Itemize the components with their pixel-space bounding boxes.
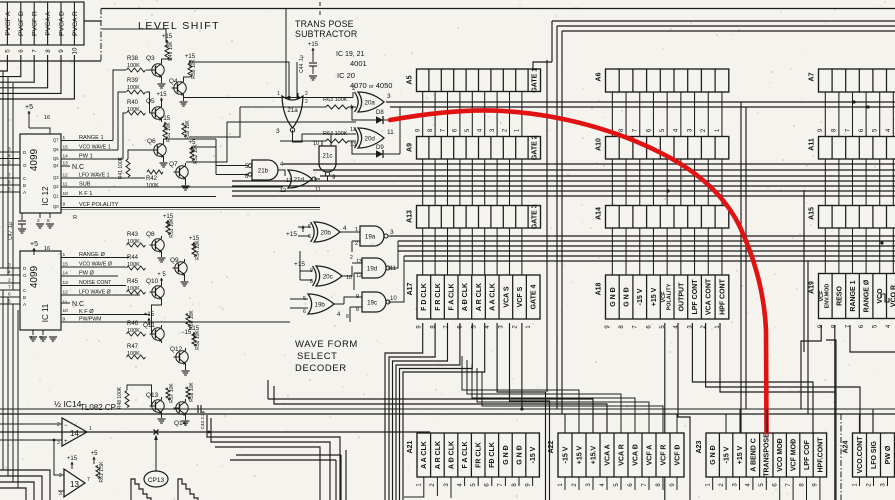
- wire stub above A23 +15V: [739, 409, 741, 433]
- gate 19d NAND: [362, 258, 386, 278]
- transistor Q3: [152, 64, 164, 76]
- wires IC11 output K.F 0: [61, 314, 150, 316]
- svg-text:12: 12: [350, 127, 356, 133]
- svg-text:2: 2: [350, 255, 353, 261]
- wire stub above A23 TRANSPOSE (under red): [766, 409, 768, 433]
- svg-text:R40: R40: [127, 100, 139, 106]
- svg-text:WAVE FORM: WAVE FORM: [295, 339, 358, 350]
- wire stub above A22 -15V: [564, 414, 566, 433]
- svg-text:PVCF R: PVCF R: [32, 11, 39, 36]
- resistor R46 100K: [127, 332, 146, 336]
- ground Q4 emitter: [183, 97, 185, 101]
- svg-text:G: G: [23, 273, 27, 278]
- wire 20a output to bus: [384, 101, 895, 103]
- svg-text:+ 5: + 5: [157, 272, 166, 278]
- connector A24: [843, 433, 895, 487]
- wire left edge bus 3: [12, 83, 14, 290]
- wire R63 wiring: [240, 106, 326, 108]
- resistor R48 100K vertical: [125, 391, 129, 408]
- junction dot: [880, 241, 883, 244]
- svg-text:SUB: SUB: [79, 182, 91, 188]
- wires IC12 output VCO WAVE 1: [61, 149, 118, 151]
- wire nest to A22 VCF R: [482, 372, 663, 433]
- wires A6 to A10 column: [612, 92, 722, 137]
- wires IC11 output RANGE 0: [61, 257, 129, 259]
- wire 21a pin2 tie: [297, 93, 299, 98]
- svg-text:16: 16: [44, 115, 50, 121]
- svg-text:R48 100K: R48 100K: [117, 386, 123, 409]
- svg-text:+5: +5: [189, 140, 197, 146]
- ground Q14: [185, 417, 187, 420]
- svg-text:IC 19, 21: IC 19, 21: [336, 51, 365, 58]
- svg-text:N.C: N.C: [72, 301, 84, 308]
- svg-text:PVCF A: PVCF A: [5, 11, 12, 36]
- wires IC12 output PW 1: [61, 158, 123, 160]
- wire vertical x=741: [740, 102, 742, 433]
- svg-text:Q6: Q6: [53, 147, 59, 152]
- wire OUTPUT down jog: [678, 323, 690, 500]
- wire bus y=170: [313, 169, 895, 171]
- svg-text:A10: A10: [596, 138, 603, 151]
- gate 20d XOR: [358, 128, 384, 148]
- connector A21: [407, 433, 539, 487]
- ground Q12: [185, 366, 187, 370]
- wires A13 to A17 column: [423, 228, 522, 275]
- wire vertical x=808: [807, 261, 809, 414]
- wire bus y=241: [398, 240, 895, 242]
- svg-text:4099: 4099: [29, 265, 40, 288]
- resistor R63 100K: [326, 105, 348, 109]
- wire vertical bus x=552: [551, 21, 553, 62]
- svg-text:A7: A7: [809, 72, 816, 81]
- svg-text:GATE 1: GATE 1: [532, 68, 539, 93]
- wires A23 pin stubs: [713, 477, 820, 500]
- wires A15 to A19 column: [825, 228, 893, 275]
- wire HPF CONT route: [720, 323, 836, 392]
- dash-dot page tick on top line: [319, 2, 321, 15]
- resistor R47 100K: [127, 355, 146, 359]
- wire bus y=176: [320, 175, 895, 177]
- wires IC11 output LFO WAVE 0: [61, 294, 140, 296]
- wire R64 left: [280, 140, 326, 142]
- svg-text:POLALITY: POLALITY: [667, 283, 673, 310]
- wire A A CLK staircase: [403, 323, 485, 500]
- wire op14 non-inverting feed: [0, 439, 56, 441]
- svg-text:LFO WAVE Ø: LFO WAVE Ø: [79, 290, 111, 296]
- wire bus y=256: [404, 255, 895, 257]
- gate 19a NAND: [360, 226, 384, 246]
- wire F R CLK staircase: [389, 323, 435, 500]
- svg-text:1: 1: [277, 91, 280, 97]
- resistor R59 10K: [182, 123, 186, 137]
- wire bus y=251: [398, 250, 895, 252]
- wire A19 pin7 to edge: [850, 325, 895, 352]
- wire bus y=107: [390, 106, 895, 108]
- svg-text:19a: 19a: [365, 233, 376, 240]
- svg-text:Q5: Q5: [146, 98, 155, 105]
- wire 21b inputs: [216, 165, 248, 167]
- svg-text:R53 10K: R53 10K: [169, 218, 175, 238]
- wire top bus line: [101, 8, 895, 10]
- wire from PVCA connector to page edge: [84, 20, 101, 22]
- IC U12 4099 latch: [20, 134, 68, 213]
- wire bus y=164: [283, 163, 895, 165]
- svg-text:B: B: [23, 295, 26, 300]
- svg-text:+15 V: +15 V: [576, 445, 583, 464]
- resistor R49 10K: [165, 45, 169, 59]
- wire nest to A22 VCA A: [462, 356, 579, 433]
- svg-text:OUTPUT: OUTPUT: [678, 282, 685, 312]
- annotation red highlight curve to TRANSPOSE pin: [390, 110, 767, 432]
- svg-text:NOISE CONT: NOISE CONT: [79, 280, 112, 286]
- svg-text:20b: 20b: [321, 229, 332, 236]
- svg-text:2: 2: [59, 473, 62, 479]
- svg-text:+15: +15: [67, 456, 78, 462]
- svg-text:8: 8: [346, 314, 349, 320]
- resistor R53 10K: [166, 222, 170, 235]
- svg-text:F D CLK: F D CLK: [421, 283, 428, 311]
- svg-text:+: +: [64, 439, 68, 445]
- wire nest to A22 VCA R: [467, 360, 621, 433]
- wire R41 to Q6: [128, 150, 152, 159]
- svg-text:Q1: Q1: [53, 194, 59, 199]
- connector A10: [596, 128, 729, 159]
- svg-text:R43: R43: [127, 232, 139, 238]
- svg-text:G: G: [23, 163, 27, 168]
- svg-text:6: 6: [308, 234, 311, 240]
- svg-text:-15 V: -15 V: [637, 288, 644, 305]
- svg-text:14: 14: [70, 429, 79, 438]
- svg-text:100K: 100K: [127, 262, 140, 268]
- wire VCA S down-right: [497, 323, 545, 500]
- svg-text:VCO WAVE Ø: VCO WAVE Ø: [79, 262, 112, 268]
- svg-text:RANGE Ø: RANGE Ø: [864, 279, 871, 312]
- wire Q4 collector: [184, 77, 191, 79]
- svg-text:9: 9: [58, 49, 65, 53]
- svg-text:PVCA R: PVCA R: [72, 11, 79, 36]
- resistor R50 10K: [188, 63, 192, 77]
- resistor R52 10K: [190, 148, 194, 161]
- connector A11: [809, 128, 895, 159]
- svg-text:A17: A17: [407, 282, 414, 295]
- svg-text:FĐ CLK: FĐ CLK: [489, 442, 496, 468]
- resistor R39 100K: [127, 90, 146, 94]
- wire dash-dot page boundary vertical bottom-right: [840, 414, 842, 500]
- label IC11 N.C: [61, 302, 70, 304]
- svg-text:16: 16: [44, 246, 50, 252]
- label IC12 N.C: [61, 165, 70, 167]
- svg-text:10: 10: [72, 47, 79, 54]
- svg-text:A Đ CLK: A Đ CLK: [448, 441, 455, 469]
- wire bus y=102 from gate 20a output: [386, 101, 895, 103]
- svg-text:21c: 21c: [323, 153, 333, 160]
- wire op-amp output bus y=432: [0, 431, 430, 433]
- connector A22: [548, 433, 684, 487]
- resistor R61 1.5K: [96, 466, 100, 479]
- svg-text:A19: A19: [809, 281, 816, 294]
- wires vertical bundle x=335-350: [335, 460, 337, 500]
- svg-text:RESO: RESO: [836, 286, 843, 306]
- connector A17: [407, 275, 540, 329]
- wire vertical feeds from IC12 to resistors: [113, 70, 126, 141]
- gate 21b AND (negated inputs): [252, 160, 278, 180]
- svg-text:3: 3: [276, 128, 280, 135]
- op-amp U13b (1/2 TL082): [58, 469, 90, 497]
- svg-text:LFO SIG: LFO SIG: [871, 440, 878, 469]
- svg-text:12: 12: [280, 188, 286, 194]
- wire Q10 emitter chain: [152, 301, 162, 334]
- svg-text:VCA A: VCA A: [604, 444, 611, 465]
- svg-text:100K: 100K: [127, 85, 140, 91]
- svg-text:Q0: Q0: [53, 204, 59, 209]
- svg-text:GATE 3: GATE 3: [532, 204, 539, 229]
- wire R38 to Q3: [146, 69, 150, 71]
- svg-text:100K: 100K: [127, 107, 140, 113]
- wire bottom-left edge corner 3: [0, 482, 34, 500]
- svg-text:+15: +15: [156, 92, 167, 98]
- svg-text:19b: 19b: [315, 301, 326, 308]
- connector P (PVCF/PVCA) top-left: [0, 2, 84, 54]
- svg-text:A: A: [23, 302, 26, 307]
- wire 19d output to bus: [388, 241, 398, 268]
- svg-text:HPF CONT: HPF CONT: [719, 278, 726, 315]
- resistor R56 10K: [192, 334, 196, 346]
- svg-text:R57 10K: R57 10K: [169, 383, 175, 403]
- gate 19c NAND: [362, 292, 386, 312]
- wire R48 feed: [127, 385, 152, 406]
- svg-text:R41 100K: R41 100K: [118, 156, 124, 179]
- svg-text:7: 7: [87, 477, 90, 483]
- svg-text:100K: 100K: [127, 328, 140, 334]
- svg-text:R64 100K: R64 100K: [323, 131, 348, 137]
- connector A7: [809, 69, 895, 92]
- wires IC12 left input pins: [0, 147, 27, 196]
- svg-text:A A CLK: A A CLK: [490, 283, 497, 311]
- wire top bus 3: [557, 25, 895, 27]
- svg-text:+15: +15: [160, 116, 171, 122]
- svg-text:21d: 21d: [294, 176, 305, 183]
- resistor R51 10K: [163, 125, 167, 139]
- svg-text:GATE 2: GATE 2: [532, 135, 539, 160]
- resistor R45 100K: [127, 290, 146, 294]
- wire R39 to Q5 base: [146, 92, 150, 113]
- wire nested corner 3 bottom-left: [215, 447, 320, 500]
- svg-text:2: 2: [355, 241, 358, 247]
- resistor R38 100K: [127, 68, 146, 72]
- wire 19c output to bus: [388, 256, 404, 302]
- transistor Q7: [176, 166, 188, 178]
- junction dot: [866, 105, 869, 108]
- svg-text:G N Đ: G N Đ: [710, 445, 717, 464]
- connector A13: [407, 204, 541, 229]
- wire 19a inputs: [348, 231, 360, 233]
- wire bus y=196: [232, 195, 895, 197]
- wire level shift mid outputs going right: [192, 146, 216, 148]
- junction dot: [852, 100, 855, 103]
- svg-text:1: 1: [89, 426, 92, 432]
- svg-text:PW Ø: PW Ø: [885, 445, 892, 464]
- wire vertical x=746: [745, 107, 747, 409]
- svg-text:VCO R: VCO R: [891, 285, 895, 307]
- svg-text:13: 13: [356, 259, 362, 265]
- resistor R44 100K: [127, 266, 146, 270]
- waveform staircase symbol 2: [178, 479, 198, 500]
- wire Q6 collector output: [164, 139, 217, 141]
- svg-text:+15: +15: [189, 326, 200, 332]
- svg-text:+15: +15: [163, 214, 174, 220]
- wire 19c inputs: [344, 297, 362, 304]
- svg-text:A24: A24: [843, 440, 850, 453]
- wire 20b inputs: [298, 226, 310, 228]
- svg-text:A R CLK: A R CLK: [435, 441, 442, 469]
- gate 21d NOR: [288, 170, 312, 188]
- wire 20c output: [342, 266, 352, 276]
- wires IC11 output PW/PWM: [61, 321, 290, 323]
- svg-text:K F 1: K F 1: [79, 191, 92, 197]
- wire vertical x=801: [801, 325, 821, 409]
- wire LPF CONT route: [692, 323, 813, 433]
- svg-text:Q13: Q13: [146, 392, 159, 399]
- svg-text:100K: 100K: [127, 286, 140, 292]
- capacitor C43 2.2u: [194, 408, 198, 410]
- wire 20b output: [340, 231, 348, 233]
- svg-text:ENV.MOD: ENV.MOD: [825, 284, 831, 309]
- wire VCF S down-right: [510, 323, 550, 500]
- svg-text:PVCF Đ: PVCF Đ: [18, 11, 25, 36]
- svg-text:VCA R: VCA R: [618, 444, 625, 466]
- wires IC11 left input pins: [0, 263, 27, 308]
- svg-text:21b: 21b: [258, 167, 269, 174]
- junction dot: [208, 431, 211, 434]
- wire pin10 long line y=61: [0, 60, 101, 62]
- wire vertical x=804 lower: [803, 190, 805, 352]
- svg-text:Q12: Q12: [170, 346, 183, 353]
- transistor Q6: [154, 144, 166, 156]
- svg-text:R54 10K: R54 10K: [195, 240, 201, 260]
- wire stub above A22 +15V: [578, 409, 580, 433]
- ground IC11 pins: [32, 330, 34, 335]
- wires IC11 output VCO WAVE 0: [61, 266, 126, 268]
- svg-text:N.C: N.C: [72, 164, 84, 171]
- svg-text:+15: +15: [308, 42, 319, 48]
- wire op13 feed from op14: [54, 440, 58, 475]
- wire 21c output: [327, 176, 329, 181]
- svg-text:VCF S: VCF S: [517, 286, 524, 307]
- svg-text:2: 2: [8, 278, 11, 284]
- wire 21a output down: [293, 130, 357, 142]
- wire stub above A22 VCF D: [676, 414, 678, 433]
- wire long bus y=414 (page boundary): [0, 413, 895, 415]
- svg-text:R39: R39: [127, 78, 139, 84]
- diode D8: [376, 116, 383, 124]
- wire diode cathodes join: [383, 119, 400, 121]
- wire 21a inputs from top: [285, 9, 287, 98]
- waveform staircase symbol 1: [131, 479, 151, 500]
- svg-text:D9: D9: [376, 145, 384, 151]
- svg-text:FR CLK: FR CLK: [476, 442, 483, 468]
- junction x mark: [154, 430, 159, 435]
- svg-text:3: 3: [57, 440, 60, 446]
- svg-text:A R CLK: A R CLK: [476, 283, 483, 311]
- svg-text:3: 3: [59, 491, 62, 497]
- svg-text:Q3: Q3: [53, 175, 59, 180]
- svg-text:+15: +15: [162, 34, 173, 40]
- svg-text:Q3: Q3: [146, 55, 155, 62]
- resistor R43 100K: [127, 243, 146, 247]
- transistor Q11: [152, 328, 164, 340]
- wire bus y=181: [232, 180, 895, 182]
- svg-text:A22: A22: [548, 440, 555, 453]
- svg-text:R: R: [73, 215, 77, 221]
- wire corner x=274: [274, 386, 607, 433]
- svg-text:+5: +5: [30, 241, 38, 248]
- svg-text:R49 10K: R49 10K: [168, 41, 174, 61]
- svg-text:A A CLK: A A CLK: [421, 441, 428, 469]
- svg-text:G N Đ: G N Đ: [516, 445, 523, 464]
- svg-text:+5: +5: [25, 104, 33, 111]
- wire VCF POLARITY down: [664, 323, 666, 500]
- svg-text:HPF.CONT: HPF.CONT: [817, 437, 824, 473]
- svg-text:SELECT: SELECT: [297, 351, 338, 362]
- svg-text:2: 2: [305, 91, 308, 97]
- svg-text:7: 7: [31, 49, 38, 53]
- wires IC12 output RANGE 1: [61, 140, 113, 142]
- svg-text:A14: A14: [596, 207, 603, 220]
- gate 21c AND (vertical): [319, 146, 336, 172]
- connector A9: [407, 128, 541, 160]
- transistor Q9: [175, 262, 187, 274]
- svg-text:11: 11: [315, 187, 321, 193]
- wire bus y=186: [232, 185, 895, 187]
- svg-text:RANGE 1: RANGE 1: [79, 135, 104, 141]
- wire bottom-left edge corner 4: [0, 488, 26, 500]
- svg-text:IC 20: IC 20: [337, 71, 355, 80]
- wires A24 pin stubs: [860, 477, 888, 486]
- gate 21a NOR (vertical): [282, 96, 303, 128]
- ground Q6: [163, 159, 165, 162]
- svg-text:C44 .1μ: C44 .1μ: [299, 55, 305, 73]
- svg-text:3: 3: [390, 229, 394, 236]
- wire A24 cell feeds: [859, 414, 861, 433]
- svg-text:+5: +5: [91, 451, 99, 457]
- svg-text:A6: A6: [596, 72, 603, 81]
- svg-text:LPF COF: LPF COF: [804, 439, 811, 470]
- gate 20c XOR: [316, 266, 342, 286]
- svg-text:100K: 100K: [127, 63, 140, 69]
- wires A14 to A18 column: [612, 228, 722, 275]
- connector A23: [696, 433, 827, 487]
- svg-text:IC 12: IC 12: [41, 186, 50, 206]
- wire 21b output: [278, 170, 285, 176]
- svg-text:R46: R46: [127, 321, 139, 327]
- svg-text:PW Ø: PW Ø: [79, 271, 95, 277]
- connector A18: [596, 275, 729, 329]
- wire right bundle x=836: [826, 340, 836, 500]
- transistor Q8: [152, 239, 164, 251]
- svg-text:R38: R38: [127, 56, 139, 62]
- wires A11 to A15 column: [825, 159, 893, 206]
- svg-text:A Đ CLK: A Đ CLK: [462, 283, 469, 311]
- svg-text:R47: R47: [127, 344, 139, 350]
- svg-text:+15: +15: [185, 54, 196, 60]
- wire left edge bus 2: [7, 77, 9, 275]
- svg-text:Q4: Q4: [169, 78, 178, 85]
- wire VCA CONT route: [706, 323, 860, 433]
- svg-text:+15.V: +15.V: [590, 445, 597, 464]
- wire left edge bus 1: [2, 71, 4, 268]
- ground Q8: [161, 254, 163, 257]
- transistor Q13: [152, 400, 164, 412]
